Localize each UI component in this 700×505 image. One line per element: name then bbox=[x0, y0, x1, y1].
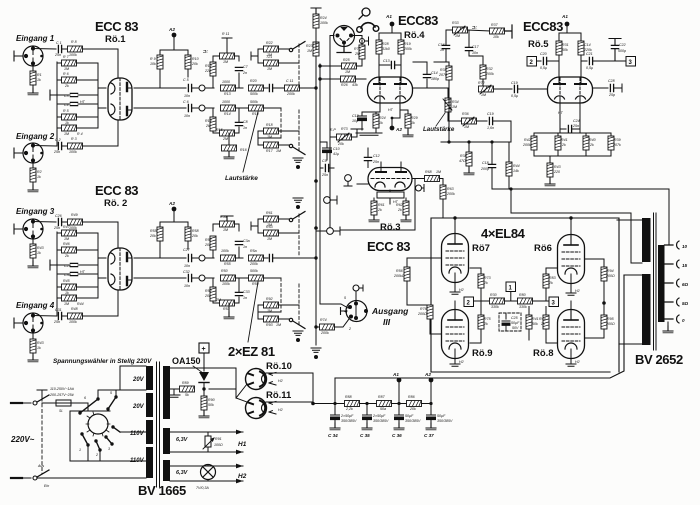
svg-text:2,2k: 2,2k bbox=[345, 407, 353, 411]
svg-text:Ein: Ein bbox=[44, 484, 49, 488]
capacitor C21 bbox=[589, 57, 592, 64]
lamp X bbox=[203, 467, 214, 478]
wire R24b leads bbox=[375, 112, 377, 133]
terminal dot III ch2 lower bbox=[296, 338, 300, 342]
svg-text:R83: R83 bbox=[549, 276, 556, 280]
capacitor C12 bbox=[364, 157, 371, 160]
chassis III lower ch2 bbox=[293, 331, 303, 335]
svg-text:110-250V~1A#: 110-250V~1A# bbox=[50, 387, 75, 391]
svg-text:R37: R37 bbox=[491, 23, 499, 27]
resistor R79 bbox=[490, 298, 505, 304]
svg-text:Rö.8: Rö.8 bbox=[533, 348, 554, 359]
resistor R23a 200k bbox=[285, 85, 300, 91]
wire 6.3V-1 upper bbox=[170, 431, 243, 433]
wire R55 leads bbox=[159, 222, 161, 258]
node dot bus y88 bbox=[314, 86, 317, 89]
svg-text:10n: 10n bbox=[184, 94, 190, 98]
svg-text:2070: 2070 bbox=[438, 73, 447, 77]
svg-text:1M: 1M bbox=[481, 93, 486, 97]
wire C30 row bbox=[57, 273, 98, 275]
capacitor C19 bbox=[489, 117, 492, 124]
svg-text:R1: R1 bbox=[37, 73, 42, 77]
wire socket3 to R42i bbox=[32, 237, 34, 264]
svg-text:Ɔ:: Ɔ: bbox=[203, 49, 208, 54]
terminal + box bbox=[199, 343, 209, 353]
svg-text:R29: R29 bbox=[411, 116, 418, 120]
svg-text:1: 1 bbox=[79, 448, 81, 452]
dashed link lower ch1 bbox=[281, 108, 299, 152]
wire HV centertap to R89 bbox=[170, 388, 179, 390]
wire tube2 top lead bbox=[117, 222, 119, 248]
ground at taps bbox=[663, 326, 673, 333]
resistor R62b bbox=[403, 201, 409, 215]
svg-text:R24: R24 bbox=[320, 16, 327, 20]
wire R35 leads bbox=[448, 62, 450, 121]
svg-text:HT: HT bbox=[80, 100, 86, 104]
wire selector to tap 110V bbox=[120, 431, 146, 433]
svg-text:1k: 1k bbox=[65, 291, 69, 295]
node rectifier out bbox=[311, 402, 315, 406]
resistor R26 bbox=[341, 76, 356, 82]
svg-text:H2: H2 bbox=[575, 289, 580, 293]
svg-text:C12: C12 bbox=[373, 154, 380, 158]
terminal circle mid 178 bbox=[345, 175, 352, 182]
node dot bus y258 bbox=[314, 256, 317, 259]
wire terminal 178 stub bbox=[344, 182, 352, 187]
tube Rö.3 bbox=[368, 168, 412, 191]
wire R56k leads bbox=[406, 258, 408, 305]
wire socket4 to R43b bbox=[32, 331, 34, 358]
transformer BV1665 secondary 6.3V-2 bbox=[163, 460, 170, 481]
wire R17/R18 left join bbox=[258, 131, 281, 145]
capacitor C7 bbox=[235, 67, 242, 70]
svg-text:C3a: C3a bbox=[243, 239, 250, 243]
selector arm 3 bbox=[106, 437, 112, 444]
svg-text:R23: R23 bbox=[306, 44, 313, 48]
svg-text:41µ: 41µ bbox=[333, 152, 339, 156]
svg-text:20k: 20k bbox=[204, 243, 211, 247]
svg-text:R5a: R5a bbox=[250, 249, 257, 253]
svg-text:Lautstärke: Lautstärke bbox=[225, 175, 258, 182]
electrolytic C10 bbox=[323, 148, 332, 153]
wire C12b leads bbox=[362, 112, 380, 130]
wire R29 leads bbox=[400, 110, 408, 133]
svg-text:6Ω: 6Ω bbox=[682, 282, 689, 287]
resistor R9 bbox=[157, 55, 163, 69]
selector arm 2 dots bbox=[94, 439, 97, 442]
ground below R43b bbox=[28, 355, 38, 362]
resistor R13 bbox=[221, 85, 236, 91]
node circle lower ch1 bbox=[199, 105, 205, 111]
wire R75 leads bbox=[480, 301, 482, 343]
wire socket2 to C2 bbox=[33, 145, 56, 148]
transformer BV1665 core lines bbox=[157, 362, 160, 487]
resistor R14 bbox=[210, 117, 216, 131]
svg-text:R43: R43 bbox=[554, 165, 561, 169]
selector arm 4 bbox=[113, 427, 120, 432]
wire R8 to grid bbox=[83, 49, 119, 77]
resistor R8 bbox=[68, 46, 83, 52]
svg-text:C22: C22 bbox=[619, 43, 626, 47]
svg-text:C19: C19 bbox=[511, 81, 518, 85]
wire +box to diode bbox=[203, 353, 205, 371]
wire C14 leads bbox=[413, 62, 427, 88]
svg-text:50µF: 50µF bbox=[437, 414, 446, 418]
wire C10 leads bbox=[320, 142, 327, 160]
wire R48 to tube bbox=[83, 315, 119, 317]
transformer BV1665 primary seg3 bbox=[146, 420, 153, 444]
svg-text:350/385V: 350/385V bbox=[373, 419, 389, 423]
wire R28 leads bbox=[378, 33, 380, 76]
ground below R61b bbox=[369, 215, 379, 222]
resistor R90 bbox=[201, 396, 207, 410]
wire socket III left stub bbox=[341, 308, 348, 315]
wire R6 row bbox=[57, 79, 98, 81]
svg-text:R50: R50 bbox=[221, 269, 228, 273]
svg-text:350/385V: 350/385V bbox=[341, 419, 357, 423]
svg-text:1M: 1M bbox=[276, 323, 281, 327]
ground below R42i bbox=[28, 261, 38, 268]
wire anode1 to primary top bbox=[617, 219, 642, 221]
capacitor C28b bbox=[235, 241, 242, 244]
tap 0 bbox=[665, 315, 680, 323]
wire switch top to fuse bbox=[37, 390, 56, 403]
svg-text:R95: R95 bbox=[607, 317, 614, 321]
wire R49 to grid bbox=[83, 222, 119, 247]
wire Rö3 cathode leads bbox=[374, 198, 406, 201]
switch mains bottom bbox=[33, 476, 37, 480]
switch lower ch2 bbox=[289, 318, 305, 328]
svg-text:47Ω: 47Ω bbox=[459, 159, 466, 163]
wire R46 row bbox=[57, 249, 98, 251]
pot arrow R34 bbox=[443, 99, 452, 110]
svg-text:1M: 1M bbox=[452, 105, 457, 109]
svg-text:R49: R49 bbox=[71, 213, 78, 217]
terminal dot below III bbox=[296, 165, 300, 169]
wire grid feed Rö7 bbox=[407, 257, 442, 259]
wire y212 supply long bbox=[511, 213, 642, 263]
svg-text:C12: C12 bbox=[352, 114, 359, 118]
svg-text:5Ω: 5Ω bbox=[682, 301, 689, 306]
resistor R35 bbox=[446, 66, 452, 80]
svg-text:R 6: R 6 bbox=[63, 72, 69, 76]
svg-text:R41: R41 bbox=[561, 138, 568, 142]
wire R37 to bar bbox=[505, 25, 513, 38]
selector arm 1 bbox=[82, 434, 88, 445]
wire R90 down bbox=[203, 410, 205, 414]
svg-text:R40: R40 bbox=[589, 138, 596, 142]
svg-text:Lautstärke: Lautstärke bbox=[423, 126, 455, 133]
resistor R56k grid feed upper bbox=[404, 267, 410, 281]
svg-text:C14: C14 bbox=[584, 43, 591, 47]
potentiometer R34 bbox=[445, 98, 451, 112]
svg-text:+: + bbox=[202, 346, 206, 353]
tube Rö.4 bbox=[368, 77, 413, 103]
resistor R29 bbox=[405, 114, 411, 128]
svg-text:ECC 83: ECC 83 bbox=[367, 239, 410, 254]
resistor R84 bbox=[543, 315, 549, 329]
capacitor C10a series bbox=[269, 84, 272, 91]
socket Eingang 4 bbox=[23, 313, 43, 333]
terminal circle mid 231 bbox=[327, 228, 334, 235]
wire R88 to C35 bbox=[360, 403, 377, 405]
svg-text:A1: A1 bbox=[561, 14, 568, 19]
svg-text:1M: 1M bbox=[223, 228, 228, 232]
svg-text:100k: 100k bbox=[69, 226, 77, 230]
svg-text:6,3V: 6,3V bbox=[176, 437, 189, 443]
svg-text:H1: H1 bbox=[238, 441, 247, 448]
svg-text:1M: 1M bbox=[64, 67, 69, 71]
svg-text:50k: 50k bbox=[532, 322, 538, 326]
svg-text:1M: 1M bbox=[307, 49, 312, 53]
wire feedback to tap bbox=[668, 189, 670, 245]
transformer BV1665 primary seg1 bbox=[146, 366, 153, 390]
potentiometer R36 bbox=[462, 118, 477, 124]
ground below R53h bbox=[224, 312, 234, 319]
wire tube1 bottom lead bbox=[117, 120, 119, 146]
svg-text:C10: C10 bbox=[333, 147, 340, 151]
svg-text:25n: 25n bbox=[54, 53, 61, 57]
svg-text:R20: R20 bbox=[250, 79, 257, 83]
plug icon hook end left bbox=[357, 27, 363, 33]
potentiometer R91 bbox=[203, 432, 214, 452]
svg-text:C31: C31 bbox=[55, 308, 62, 312]
svg-text:0: 0 bbox=[682, 318, 685, 323]
wire R56 T-bar bbox=[221, 216, 233, 221]
wire y142 feedback row bbox=[441, 141, 511, 143]
wire tube1 top lead bbox=[117, 49, 119, 78]
svg-text:R19: R19 bbox=[404, 42, 411, 46]
svg-text:200kΩ: 200kΩ bbox=[393, 274, 405, 278]
svg-text:0,5µ: 0,5µ bbox=[511, 94, 518, 98]
svg-text:R58: R58 bbox=[192, 229, 199, 233]
svg-text:A1: A1 bbox=[392, 372, 399, 377]
svg-text:25n: 25n bbox=[321, 173, 328, 177]
capacitor C5 bbox=[188, 84, 191, 91]
wire R62b leads bbox=[405, 215, 407, 220]
resistor R46 bbox=[62, 247, 77, 253]
svg-text:ECC 83: ECC 83 bbox=[95, 19, 138, 34]
svg-text:R30: R30 bbox=[490, 293, 497, 297]
svg-text:1k: 1k bbox=[37, 251, 41, 255]
svg-text:R53: R53 bbox=[266, 225, 273, 229]
wire C17 leads bbox=[469, 31, 483, 56]
svg-text:R88: R88 bbox=[345, 395, 352, 399]
wire C34 ground bbox=[334, 420, 336, 427]
svg-text:2M: 2M bbox=[215, 298, 221, 302]
svg-text:20k: 20k bbox=[409, 407, 416, 411]
wire R4 row bbox=[57, 127, 98, 129]
svg-text:Aus: Aus bbox=[37, 464, 44, 468]
svg-text:2k: 2k bbox=[589, 143, 594, 147]
wire R61b leads bbox=[373, 215, 375, 220]
wire left bus ch2 bbox=[56, 232, 58, 316]
resistor R55h bbox=[221, 255, 236, 261]
wire arm5 to tap bbox=[115, 390, 117, 397]
svg-text:110V: 110V bbox=[130, 431, 145, 437]
svg-text:1000: 1000 bbox=[222, 80, 230, 84]
resistor R25 bbox=[342, 63, 357, 69]
wire arm2 down bbox=[99, 450, 101, 461]
node circle lower ch2 bbox=[199, 275, 205, 281]
svg-text:350/385V: 350/385V bbox=[405, 419, 421, 423]
tap 5ohm bbox=[665, 298, 680, 306]
resistor R88 bbox=[345, 401, 360, 407]
capacitor C24 bbox=[568, 125, 571, 132]
svg-text:1M: 1M bbox=[64, 302, 69, 306]
svg-text:200-257V~25#: 200-257V~25# bbox=[49, 393, 75, 397]
box terminal 3 bbox=[626, 57, 636, 67]
wire R15 frame bbox=[213, 133, 239, 145]
wire C12 leads bbox=[367, 148, 369, 168]
capacitor C6 bbox=[188, 104, 191, 111]
svg-text:R22: R22 bbox=[266, 41, 273, 45]
wire Rö6 anode to frame bbox=[570, 218, 572, 235]
svg-text:200k: 200k bbox=[522, 143, 531, 147]
wire R66 leads bbox=[407, 305, 442, 334]
svg-text:R52: R52 bbox=[205, 289, 212, 293]
svg-text:A2: A2 bbox=[424, 372, 431, 377]
wire R73 leads bbox=[480, 268, 482, 301]
wire R71 leads bbox=[330, 129, 363, 142]
chassis III lower ch1 bbox=[293, 158, 303, 162]
resistor R11 top bbox=[220, 53, 235, 59]
svg-text:A2: A2 bbox=[395, 127, 402, 132]
arrow 6.3V-2 upper bbox=[236, 464, 243, 469]
wire Rö7 cathode bbox=[454, 282, 456, 292]
wire R17 right bbox=[279, 144, 290, 146]
wire bus to socket bbox=[320, 304, 348, 308]
svg-text:R93: R93 bbox=[266, 323, 273, 327]
wire R92 right bbox=[279, 304, 300, 306]
svg-text:1M: 1M bbox=[267, 67, 272, 71]
wire R22 right bbox=[279, 48, 290, 50]
svg-text:20V: 20V bbox=[132, 404, 145, 410]
potentiometer R71 bbox=[337, 134, 352, 140]
svg-text:R72: R72 bbox=[478, 81, 485, 85]
svg-text:5k: 5k bbox=[185, 393, 189, 397]
resistor R24b bbox=[373, 114, 379, 128]
box terminal 1 bbox=[506, 282, 516, 292]
resistor R94 bbox=[601, 267, 607, 281]
wire R19b leads bbox=[400, 33, 402, 76]
svg-text:R43: R43 bbox=[37, 246, 44, 250]
capacitor C3 bbox=[70, 93, 77, 96]
svg-text:R 8: R 8 bbox=[71, 40, 77, 44]
capacitor C17 bbox=[465, 47, 472, 50]
ground C36 bbox=[394, 423, 404, 430]
svg-text:5: 5 bbox=[344, 296, 346, 300]
wire R25/R26 leads bbox=[320, 66, 366, 79]
wire socket2 stub bbox=[14, 148, 23, 158]
node dot y142 x469 bbox=[467, 140, 470, 143]
wire R20 to C10a bbox=[264, 87, 285, 89]
wire R31 leads bbox=[558, 33, 560, 76]
svg-text:Ausgang: Ausgang bbox=[371, 306, 409, 316]
svg-text:100k: 100k bbox=[69, 53, 77, 57]
wire R43c leads bbox=[549, 156, 551, 182]
svg-text:2×50µF: 2×50µF bbox=[372, 414, 386, 418]
capacitor C31 bbox=[58, 312, 61, 319]
node dot A2 rail bbox=[391, 117, 394, 120]
wire R53h frame bbox=[213, 303, 239, 315]
wire tube2 out lower bbox=[134, 277, 186, 279]
svg-text:C8: C8 bbox=[243, 120, 248, 124]
svg-text:ECC 83: ECC 83 bbox=[95, 183, 138, 198]
electrolytic C37 bbox=[427, 415, 436, 420]
wire 6.3V-2 lower bbox=[170, 480, 243, 482]
capacitor C14 bbox=[423, 74, 430, 77]
resistor R43c bbox=[547, 163, 553, 177]
svg-text:R13: R13 bbox=[224, 92, 231, 96]
wire tube1 out lower bbox=[134, 107, 186, 109]
wire R56 frame bbox=[213, 224, 239, 231]
node circle upper ch2 bbox=[199, 255, 205, 261]
svg-text:2×EZ 81: 2×EZ 81 bbox=[228, 344, 275, 359]
svg-text:C21: C21 bbox=[586, 52, 593, 56]
tube Rö.7 bbox=[442, 234, 469, 283]
capacitor C4 bbox=[70, 102, 77, 105]
svg-text:200k: 200k bbox=[320, 331, 329, 335]
terminal A2 filter bbox=[429, 378, 434, 383]
svg-text:C17: C17 bbox=[472, 45, 480, 49]
wire R87 to A1 node bbox=[392, 403, 407, 405]
svg-text:R25: R25 bbox=[343, 58, 350, 62]
wire tube2 out upper bbox=[134, 257, 186, 259]
svg-text:R2: R2 bbox=[37, 170, 42, 174]
svg-text:R28: R28 bbox=[382, 42, 389, 46]
wire socket3 stub bbox=[14, 224, 23, 234]
resistor R5 bbox=[62, 114, 77, 120]
wire R54 to bus bbox=[264, 257, 317, 259]
lamp pilot bbox=[201, 465, 216, 480]
ground C37 bbox=[426, 423, 436, 430]
wire Rö4 cathode leads bbox=[380, 99, 400, 112]
wire socket4 stub bbox=[14, 318, 23, 328]
svg-text:200k: 200k bbox=[403, 47, 412, 51]
svg-text:25p: 25p bbox=[608, 93, 615, 97]
wire Rö3 anode stubs bbox=[381, 162, 401, 172]
electrolytic C36 bbox=[395, 415, 404, 420]
plug icon pin bbox=[359, 15, 363, 19]
wire R61/R62 left join bbox=[251, 219, 264, 233]
svg-text:R14: R14 bbox=[205, 119, 212, 123]
resistor R62 bbox=[264, 230, 279, 236]
wire HV top to Rö10 bbox=[170, 368, 247, 402]
transformer BV1665 primary seg4 bbox=[146, 447, 153, 478]
diode bar bbox=[199, 382, 209, 384]
wire C32 to node bbox=[192, 277, 199, 279]
svg-text:C 6: C 6 bbox=[183, 100, 189, 104]
capacitor C25 boxed bbox=[499, 313, 521, 331]
wire C18 leads bbox=[491, 142, 493, 189]
svg-text:R73: R73 bbox=[341, 127, 348, 131]
svg-text:200k: 200k bbox=[286, 92, 295, 96]
ground Rö6 bbox=[566, 293, 576, 295]
ground below R16 bbox=[224, 152, 234, 159]
arrow H2 Rö11 bbox=[269, 402, 276, 415]
svg-text:200Ω: 200Ω bbox=[605, 274, 615, 278]
dashed link lower ch2 bbox=[281, 278, 299, 326]
svg-text:20k: 20k bbox=[204, 294, 211, 298]
svg-text:2k: 2k bbox=[397, 208, 402, 212]
ground Rö9 bbox=[450, 364, 460, 366]
svg-text:2M: 2M bbox=[354, 52, 360, 56]
svg-text:500k: 500k bbox=[250, 269, 258, 273]
svg-text:100k: 100k bbox=[222, 282, 230, 286]
svg-text:0,5µ: 0,5µ bbox=[540, 66, 547, 70]
wire C22 T-bar bbox=[609, 39, 621, 62]
